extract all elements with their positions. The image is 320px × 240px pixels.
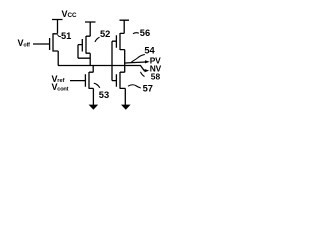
- svg-text:CC: CC: [68, 12, 78, 19]
- svg-text:ref: ref: [57, 78, 64, 84]
- svg-text:54: 54: [144, 45, 155, 55]
- svg-text:58: 58: [151, 72, 161, 82]
- svg-text:off: off: [23, 43, 30, 49]
- svg-text:56: 56: [140, 28, 150, 38]
- svg-text:53: 53: [99, 90, 109, 100]
- svg-text:52: 52: [100, 29, 110, 39]
- svg-text:cont: cont: [57, 87, 68, 93]
- svg-text:57: 57: [143, 84, 153, 94]
- svg-text:51: 51: [61, 31, 71, 41]
